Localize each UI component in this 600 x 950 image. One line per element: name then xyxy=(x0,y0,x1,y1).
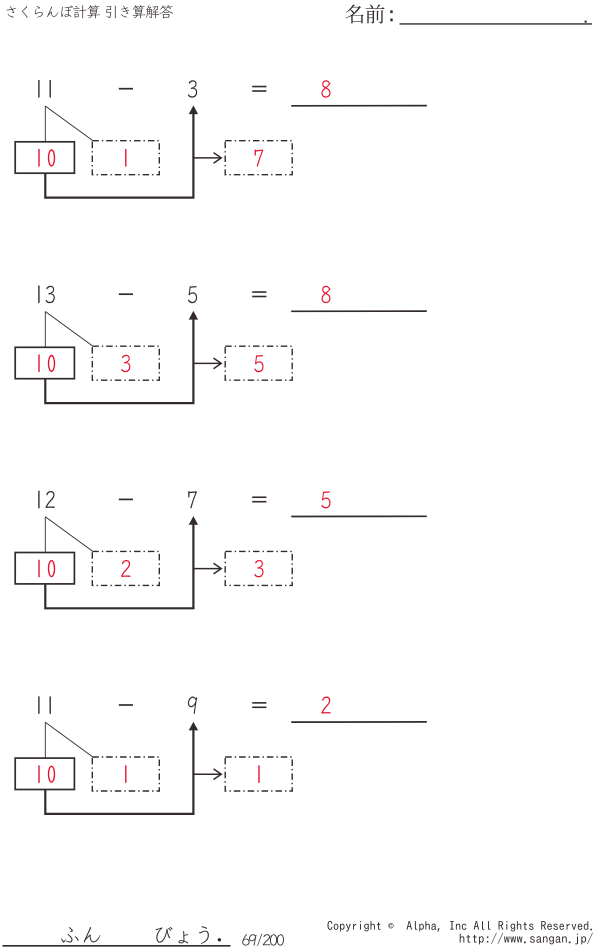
problem 4 right dashed box xyxy=(225,757,292,791)
problem 2 equals sign xyxy=(252,292,266,296)
header title さくらんぼ計算 引き算解答 xyxy=(6,5,173,18)
problem 1 connector line from box bottom xyxy=(45,114,193,198)
problem 1 right dashed box xyxy=(225,141,292,175)
problem 3 cherry stem right (diagonal) xyxy=(45,517,92,551)
footer time label ふん xyxy=(61,927,100,943)
problem 1 left dashed box value 1 (red) xyxy=(125,150,127,166)
copyright line xyxy=(327,921,591,932)
problem 1 solid box value 10 (red) xyxy=(39,150,55,166)
problem 4 answer 2 (red) xyxy=(321,697,330,714)
problem 4 up arrowhead xyxy=(189,722,198,731)
problem 2 left dashed box value 3 (red) xyxy=(121,355,130,372)
problem 2 answer underline xyxy=(291,310,427,312)
page number 69/200 xyxy=(242,934,284,946)
problem 3 up arrowhead xyxy=(189,516,198,525)
problem 2 minuend 13 xyxy=(39,286,55,303)
problem 2 solid box (tens) xyxy=(15,347,74,378)
problem 3 right dashed box xyxy=(225,551,292,585)
problem 3 connector line from box bottom xyxy=(45,525,193,609)
problem 1 cherry stem left (vertical) xyxy=(44,106,46,141)
problem 1 up arrowhead xyxy=(189,105,198,114)
problem 1 left dashed box xyxy=(92,141,159,175)
problem 3 answer underline xyxy=(291,515,427,517)
problem 2 subtrahend 5 xyxy=(188,286,197,303)
footer time label びょう. xyxy=(156,926,222,944)
problem 2 right dashed box value 5 (red) xyxy=(254,355,263,372)
name line end period xyxy=(585,21,587,23)
problem 4 solid box (tens) xyxy=(15,758,74,789)
name colon xyxy=(390,10,392,13)
problem 4 right dashed box value 1 (red) xyxy=(258,766,260,782)
problem 2 up arrowhead xyxy=(189,311,198,320)
problem 3 right dashed box value 3 (red) xyxy=(254,560,263,577)
problem 2 minus sign xyxy=(119,293,133,295)
problem 2 answer 8 (red) xyxy=(321,286,330,303)
problem 4 left dashed box xyxy=(92,757,159,791)
problem 1 equals sign xyxy=(252,87,266,91)
problem 1 right dashed box value 7 (red) xyxy=(255,150,264,167)
problem 1 cherry stem right (diagonal) xyxy=(45,106,92,140)
problem 1 right arrow xyxy=(193,157,220,159)
problem 2 right arrow xyxy=(193,362,220,364)
problem 4 minus sign xyxy=(119,704,133,706)
problem 1 answer 8 (red) xyxy=(321,80,330,97)
problem 3 minuend 12 xyxy=(39,491,55,508)
problem 3 left dashed box value 2 (red) xyxy=(121,560,130,577)
problem 3 left dashed box xyxy=(92,551,159,585)
url line xyxy=(460,933,593,945)
problem 4 cherry stem left (vertical) xyxy=(44,722,46,757)
problem 3 right arrow xyxy=(193,568,220,570)
problem 4 connector line from box bottom xyxy=(45,730,193,814)
problem 3 solid box value 10 (red) xyxy=(39,560,55,576)
problem 4 minuend 11 xyxy=(39,697,50,713)
name label 名前 xyxy=(345,4,384,23)
name underline xyxy=(400,23,593,25)
problem 1 solid box (tens) xyxy=(15,142,74,173)
problem 3 cherry stem left (vertical) xyxy=(44,517,46,552)
problem 4 subtrahend 9 xyxy=(188,697,197,714)
problem 4 answer underline xyxy=(291,721,427,723)
problem 3 minus sign xyxy=(119,498,133,500)
problem 1 minus sign xyxy=(119,88,133,90)
problem 1 answer underline xyxy=(291,105,427,107)
problem 4 equals sign xyxy=(252,703,266,707)
problem 2 left dashed box xyxy=(92,346,159,380)
problem 2 right dashed box xyxy=(225,346,292,380)
problem 3 answer 5 (red) xyxy=(321,491,330,508)
problem 4 cherry stem right (diagonal) xyxy=(45,722,92,756)
problem 2 connector line from box bottom xyxy=(45,319,193,403)
problem 4 right arrow xyxy=(193,773,220,775)
problem 2 cherry stem right (diagonal) xyxy=(45,312,92,346)
problem 2 cherry stem left (vertical) xyxy=(44,312,46,347)
problem 4 left dashed box value 1 (red) xyxy=(125,766,127,782)
problem 3 subtrahend 7 xyxy=(188,491,197,508)
problem 1 subtrahend 3 xyxy=(188,80,197,97)
problem 4 solid box value 10 (red) xyxy=(39,766,55,782)
problem 2 solid box value 10 (red) xyxy=(39,355,55,371)
problem 3 solid box (tens) xyxy=(15,553,74,584)
problem 3 equals sign xyxy=(252,497,266,501)
footer underline xyxy=(3,945,231,947)
problem 1 minuend 11 xyxy=(39,81,50,97)
